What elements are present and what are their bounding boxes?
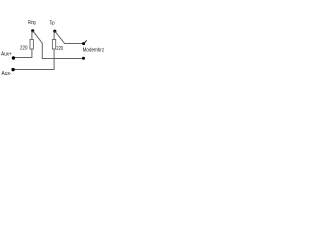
node Tip terminal dot [53,30,56,33]
node Aux+ dot [12,56,15,59]
svg-text:Ring: Ring [28,20,36,26]
svg-text:Aux+: Aux+ [1,52,12,58]
node Aux- dot [11,68,14,71]
resistor R1 220 (left) [30,40,33,50]
background [0,0,120,98]
node Modemhrz upper dot [82,42,85,45]
wire Ring dot to R1 top [31,31,33,40]
svg-text:220: 220 [20,46,28,52]
node Ring terminal dot [31,29,34,32]
wire R2 bottom through bus down and left to Aux- [13,49,54,70]
svg-text:220: 220 [56,46,63,52]
svg-text:Aux-: Aux- [2,71,12,77]
svg-text:Tip: Tip [49,21,55,27]
resistor R2 220 (right) [52,40,55,50]
node Modemhrz lower dot [82,57,85,60]
wire switch diagonal from Ring dot [33,31,42,43]
svg-text:Modemhrz: Modemhrz [83,47,105,53]
wire Aux+ to R1 bottom [13,49,32,58]
wire switch drop and bottom bus to Modemhrz lower dot [42,43,83,59]
wire switch diagonal from Tip dot to Modemhrz upper wire [55,32,83,44]
wire Tip dot to R2 top [53,31,55,39]
wire switch stub at Modemhrz upper dot [84,40,87,43]
